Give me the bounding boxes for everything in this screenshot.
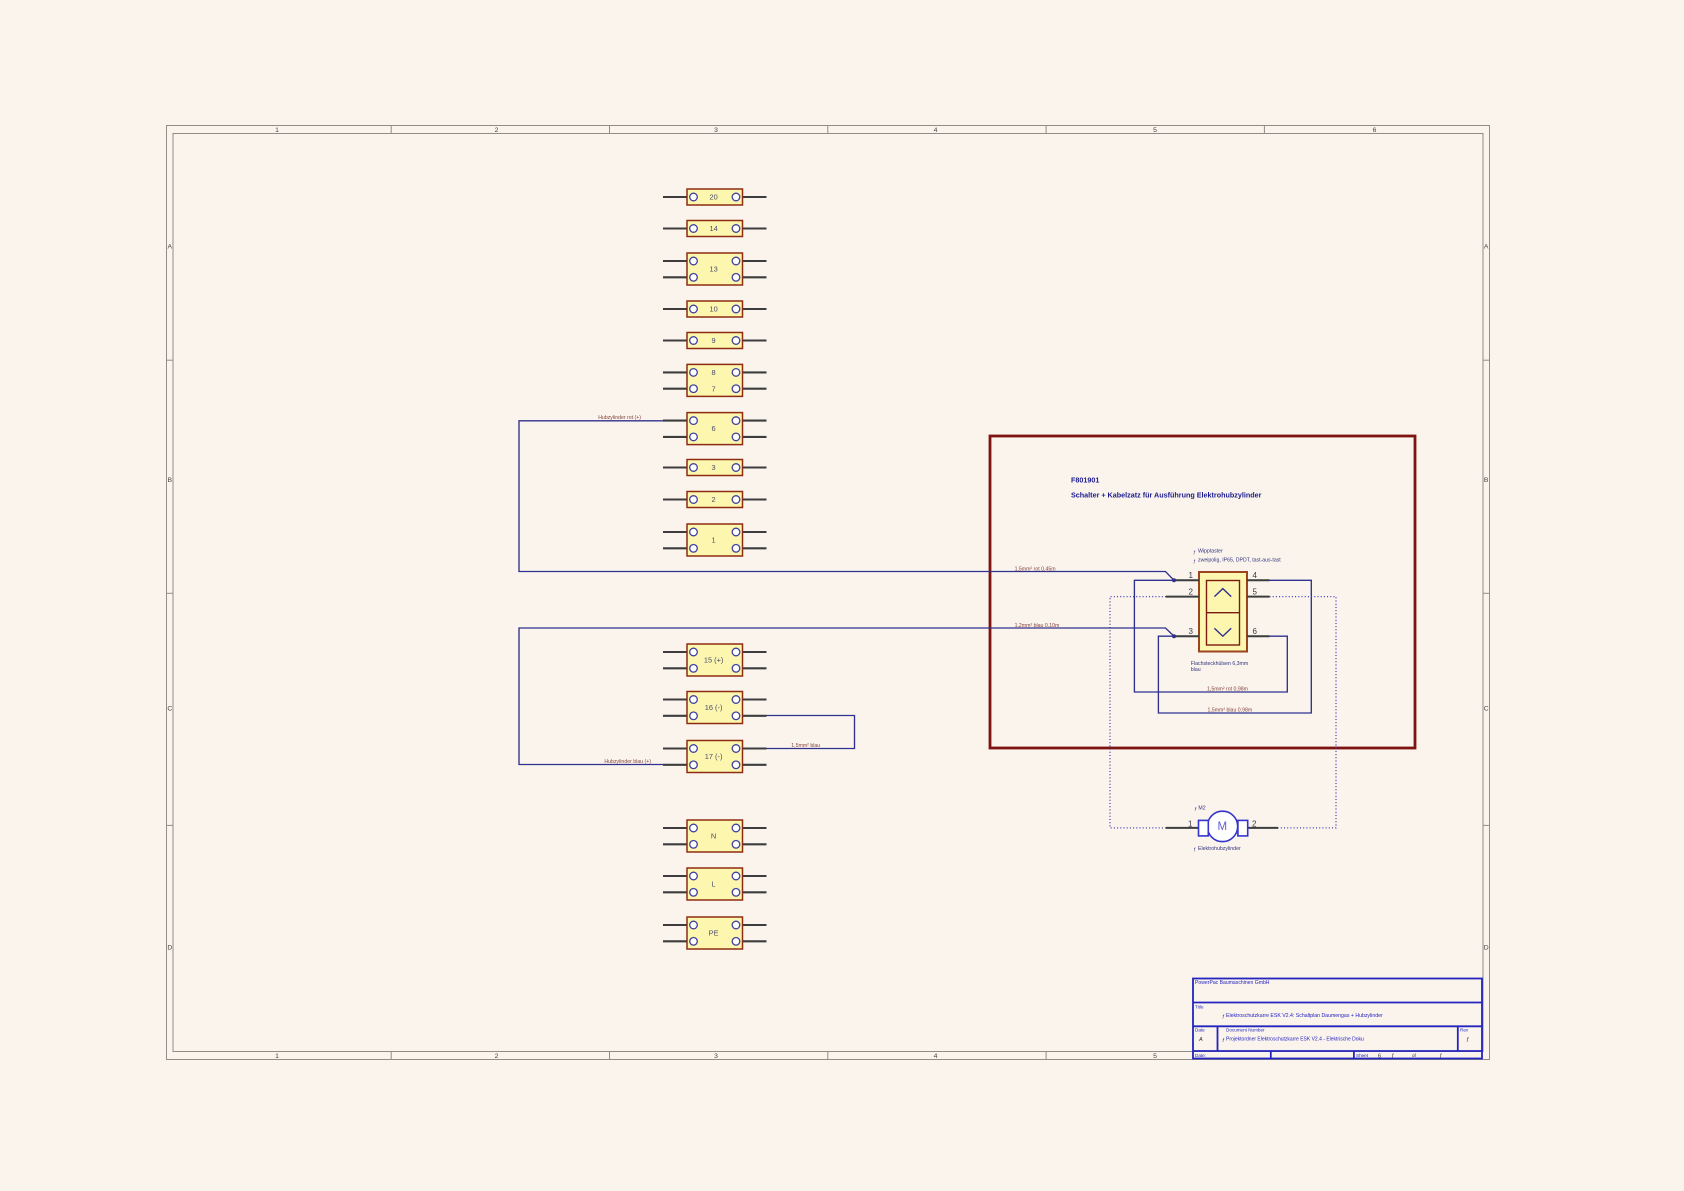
svg-text:zweipolig, IP65, DPDT, tast-au: zweipolig, IP65, DPDT, tast-aus-tast <box>1198 558 1281 564</box>
svg-text:5: 5 <box>1253 587 1258 596</box>
svg-text:6: 6 <box>1253 627 1258 636</box>
svg-text:16 (-): 16 (-) <box>705 703 723 712</box>
svg-text:A: A <box>168 243 173 250</box>
switch pin stubs <box>1166 580 1270 636</box>
svg-text:2: 2 <box>1252 820 1257 829</box>
svg-text:F801901: F801901 <box>1071 476 1099 485</box>
svg-text:Elektrohubzylinder: Elektrohubzylinder <box>1198 846 1241 852</box>
dotted wire pin2 to motor pin1 <box>1110 597 1166 828</box>
svg-text:4: 4 <box>1253 571 1258 580</box>
cable-set group box F801901 <box>990 436 1415 748</box>
svg-text:M: M <box>1218 821 1228 833</box>
terminal block 6 <box>663 413 767 445</box>
svg-text:C: C <box>167 705 172 712</box>
svg-text:6: 6 <box>1378 1054 1381 1060</box>
svg-text:Rev: Rev <box>1460 1028 1469 1033</box>
dotted wire pin5 to motor pin2 <box>1270 597 1337 828</box>
svg-text:Date:: Date: <box>1195 1053 1206 1058</box>
wire Hubzylinder blau (+) : terminal 17 to switch pin 3 <box>519 628 1174 765</box>
switch pin numbers <box>1189 571 1258 636</box>
terminal block 2 <box>663 492 767 508</box>
svg-text:14: 14 <box>709 224 717 233</box>
svg-text:4: 4 <box>934 127 938 134</box>
svg-text:blau: blau <box>1191 667 1201 673</box>
svg-text:2: 2 <box>495 1053 499 1060</box>
svg-text:1: 1 <box>712 536 716 545</box>
terminal block L <box>663 868 767 900</box>
svg-text:3: 3 <box>1189 627 1194 636</box>
svg-text:B: B <box>168 477 173 484</box>
svg-text:ƒ: ƒ <box>1439 1054 1442 1060</box>
svg-text:7: 7 <box>712 384 716 393</box>
svg-text:2: 2 <box>1189 587 1194 596</box>
svg-text:Schalter + Kabelzatz für Ausfü: Schalter + Kabelzatz für Ausführung Elek… <box>1071 491 1262 500</box>
svg-text:M2: M2 <box>1198 806 1205 812</box>
svg-text:ƒ: ƒ <box>1466 1037 1469 1043</box>
svg-text:5: 5 <box>1153 127 1157 134</box>
svg-text:A: A <box>1484 243 1489 250</box>
svg-text:1,2mm² blau 0,10m: 1,2mm² blau 0,10m <box>1015 623 1060 629</box>
wire Hubzylinder rot (+) : terminal 6 to switch pin 1 <box>519 421 1174 581</box>
svg-text:6: 6 <box>1373 127 1377 134</box>
svg-text:C: C <box>1484 705 1489 712</box>
junction pin 1 <box>1172 578 1176 582</box>
terminal block 8/7 <box>663 364 767 396</box>
wire 1,5mm2 blau 0,98m : pin3 to pin4 <box>1158 580 1311 713</box>
svg-text:L: L <box>712 880 716 889</box>
terminal block 13 <box>663 253 767 285</box>
title block <box>1193 979 1482 1059</box>
svg-text:Projektordner Elektroschutzkar: Projektordner Elektroschutzkarre ESK V2.… <box>1226 1037 1364 1043</box>
terminal block 16 (-) <box>663 692 767 724</box>
svg-text:17 (-): 17 (-) <box>705 752 723 761</box>
svg-text:6: 6 <box>712 424 716 433</box>
svg-text:5: 5 <box>1153 1053 1157 1060</box>
motor M2 Elektrohubzylinder <box>1166 811 1278 841</box>
svg-text:1: 1 <box>1189 571 1194 580</box>
terminal block 15 (+) <box>663 644 767 676</box>
terminal block 9 <box>663 333 767 349</box>
terminal block PE <box>663 917 767 949</box>
svg-text:Title: Title <box>1195 1005 1204 1010</box>
svg-text:13: 13 <box>709 265 717 274</box>
svg-text:4: 4 <box>934 1053 938 1060</box>
svg-text:20: 20 <box>709 193 717 202</box>
terminal block 20 <box>663 189 767 205</box>
svg-text:Wipptaster: Wipptaster <box>1198 549 1223 555</box>
svg-text:2: 2 <box>495 127 499 134</box>
terminal block 1 <box>663 524 767 556</box>
svg-text:Sheet: Sheet <box>1356 1053 1369 1058</box>
rocker switch Wipptaster <box>1199 572 1247 652</box>
wire 1,5mm2 blau : terminal 16 to terminal 17 <box>767 716 855 749</box>
svg-text:15 (+): 15 (+) <box>704 656 724 665</box>
svg-text:N: N <box>711 832 716 841</box>
svg-text:1: 1 <box>1188 820 1193 829</box>
svg-text:Date: Date <box>1195 1028 1205 1033</box>
svg-text:10: 10 <box>709 305 717 314</box>
svg-text:Hubzylinder rot (+): Hubzylinder rot (+) <box>598 415 641 421</box>
sheet border frame <box>167 126 1490 1060</box>
svg-text:1: 1 <box>275 1053 279 1060</box>
svg-text:1: 1 <box>275 127 279 134</box>
svg-text:2: 2 <box>712 495 716 504</box>
svg-text:1,5mm² blau 0,98m: 1,5mm² blau 0,98m <box>1208 708 1253 714</box>
svg-text:B: B <box>1484 477 1489 484</box>
svg-text:Hubzylinder blau (+): Hubzylinder blau (+) <box>604 759 651 765</box>
svg-text:Elektroschutzkarre ESK V2.4: S: Elektroschutzkarre ESK V2.4: Schaltplan … <box>1226 1013 1383 1019</box>
terminal block N <box>663 820 767 852</box>
svg-text:9: 9 <box>712 336 716 345</box>
svg-text:3: 3 <box>714 127 718 134</box>
svg-text:PowerPac Baumaschinen GmbH: PowerPac Baumaschinen GmbH <box>1195 980 1270 986</box>
terminal block 17 (-) <box>663 741 767 773</box>
svg-text:Flachsteckhülsen 6,3mm: Flachsteckhülsen 6,3mm <box>1191 661 1248 667</box>
svg-text:PE: PE <box>709 929 719 938</box>
zone labels <box>167 127 1489 1060</box>
svg-text:D: D <box>1484 944 1489 951</box>
svg-text:A: A <box>1198 1037 1203 1043</box>
svg-text:D: D <box>167 944 172 951</box>
svg-text:1,5mm² blau: 1,5mm² blau <box>791 743 820 749</box>
terminal block 3 <box>663 460 767 476</box>
svg-text:3: 3 <box>714 1053 718 1060</box>
svg-text:Document Number: Document Number <box>1226 1028 1265 1033</box>
svg-text:ƒ: ƒ <box>1391 1054 1394 1060</box>
svg-text:3: 3 <box>712 463 716 472</box>
terminal block 10 <box>663 301 767 317</box>
terminal block 14 <box>663 221 767 237</box>
svg-text:8: 8 <box>712 368 716 377</box>
svg-text:1,5mm² rot 0,98m: 1,5mm² rot 0,98m <box>1207 687 1248 693</box>
junction pin 3 <box>1172 634 1176 638</box>
wire 1,5mm2 rot 0,98m : pin1 to pin6 <box>1134 580 1287 692</box>
svg-text:1,5mm² rot 0,45m: 1,5mm² rot 0,45m <box>1015 566 1056 572</box>
